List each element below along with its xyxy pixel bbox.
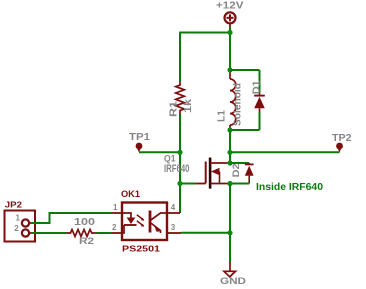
wire +12V to top rail <box>229 27 231 70</box>
wire R2 to OK1 pin2 <box>97 232 113 234</box>
svg-text:R1: R1 <box>169 100 180 117</box>
wire D1 top vertical <box>259 70 261 93</box>
svg-text:1k: 1k <box>183 98 194 113</box>
wire drain node to D2 <box>230 162 249 164</box>
svg-text:Solenoid: Solenoid <box>232 83 243 126</box>
svg-text:TP2: TP2 <box>332 133 352 144</box>
svg-text:JP2: JP2 <box>5 199 23 209</box>
light arrows <box>137 215 144 220</box>
svg-text:2: 2 <box>14 224 19 233</box>
svg-text:100: 100 <box>74 217 96 228</box>
svg-text:1: 1 <box>16 214 21 223</box>
junction source node <box>227 181 232 186</box>
svg-text:IRF640: IRF640 <box>164 163 190 175</box>
svg-text:+12V: +12V <box>216 1 244 12</box>
phototransistor <box>149 211 152 233</box>
wire OK1 pin3 to source column <box>181 232 230 234</box>
junction at +12V tap <box>227 30 232 35</box>
optocoupler OK1 <box>112 189 181 254</box>
svg-text:1: 1 <box>113 203 118 212</box>
connector JP2 <box>5 199 36 241</box>
wire top rail horizontal to R1 <box>179 32 230 34</box>
mosfet Q1 <box>164 154 230 189</box>
svg-text:Inside IRF640: Inside IRF640 <box>256 182 323 193</box>
svg-text:2: 2 <box>112 223 117 232</box>
wire source to GND <box>229 184 231 263</box>
wire loop bottom to L1 <box>230 129 260 131</box>
wire TP1 to gate column <box>139 151 180 153</box>
diode D2 <box>231 163 254 184</box>
junction drain node <box>227 160 232 165</box>
ground <box>220 262 246 286</box>
test point TP1 <box>129 132 150 153</box>
junction TP1 tap <box>177 150 182 155</box>
junction bottom of L1/D1 loop <box>227 127 232 132</box>
svg-text:PS2501: PS2501 <box>122 244 160 254</box>
wire JP2 pin1 to OK1 pin1 (jog) <box>32 213 113 223</box>
wire L1 bottom to drain <box>229 130 231 163</box>
junction top of L1/D1 loop <box>227 67 232 72</box>
junction TP2 tap <box>227 150 232 155</box>
wire gate tap to mosfet <box>180 183 196 185</box>
LED inside <box>122 213 131 218</box>
svg-text:3: 3 <box>171 223 176 232</box>
resistor R1 <box>169 33 194 118</box>
resistor R2 <box>66 217 97 246</box>
svg-text:L1: L1 <box>216 110 227 122</box>
test point TP2 <box>332 133 352 153</box>
svg-text:4: 4 <box>171 203 176 212</box>
wire TP2 to drain column <box>230 151 340 153</box>
wire JP2 pin2 to R2 <box>32 232 67 234</box>
svg-text:D1: D1 <box>251 80 262 94</box>
wire loop top to D1 <box>230 69 260 71</box>
wire R1 bottom down to OK1 pin4 <box>179 114 181 213</box>
diode D1 <box>251 80 264 112</box>
junction gate tap <box>177 181 182 186</box>
svg-text:TP1: TP1 <box>129 132 150 143</box>
wire D1 bottom vertical <box>259 112 261 130</box>
svg-text:D2: D2 <box>231 163 241 177</box>
svg-text:OK1: OK1 <box>121 189 140 199</box>
inductor L1 <box>216 70 243 130</box>
supply +12V <box>216 1 244 28</box>
svg-text:GND: GND <box>220 276 246 286</box>
wire D2 bottom to source node <box>230 183 249 185</box>
svg-text:R2: R2 <box>79 236 94 246</box>
junction OK1 emitter tap <box>227 230 232 235</box>
